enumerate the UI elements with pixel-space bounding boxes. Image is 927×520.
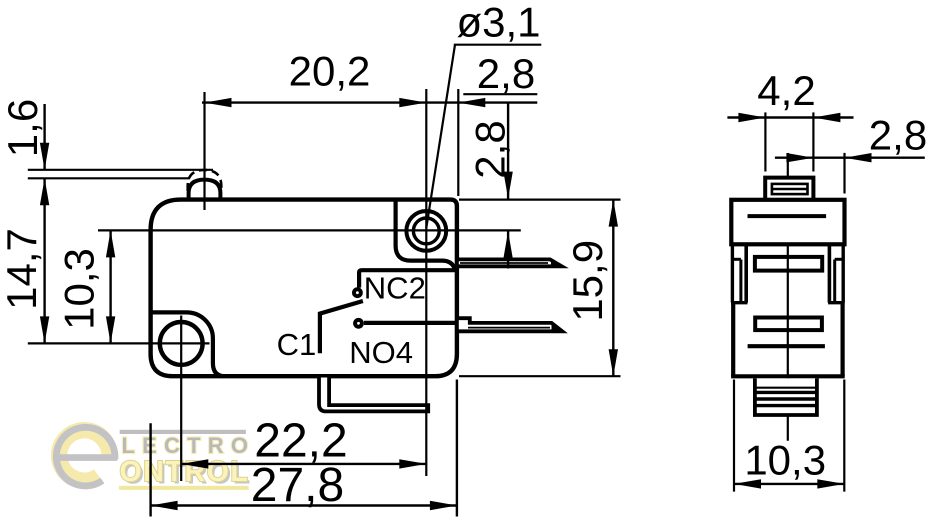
- centerline hole H2 horizontal: [98, 229, 521, 231]
- svg-text:10,3: 10,3: [744, 437, 826, 484]
- side view terminal stack lines: [755, 387, 817, 389]
- logo big e yellow ring: [59, 430, 109, 480]
- extension line plunger free top: [28, 169, 213, 171]
- common contact arm C1: [320, 301, 363, 353]
- side view waist left edge: [744, 244, 748, 302]
- underline ø3,1: [454, 44, 542, 46]
- svg-text:4,2: 4,2: [757, 67, 815, 114]
- contact NO4 dot: [353, 318, 364, 329]
- contact NC2 dot: [352, 287, 363, 298]
- side view upper housing groove: [748, 214, 827, 218]
- terminal NO blade (lower right): [457, 318, 562, 331]
- svg-text:2,8: 2,8: [477, 50, 535, 97]
- svg-text:15,9: 15,9: [564, 240, 611, 322]
- mounting hole boss top-right: [396, 200, 455, 269]
- side view slot upper: [755, 257, 822, 271]
- logo yellow bar under ONTROL: [119, 486, 249, 490]
- arrow 27,8 right: [430, 501, 457, 510]
- side view waist right edge: [828, 244, 832, 302]
- mounting hole boss bottom-left: [151, 312, 224, 376]
- contact NC2 wire: [359, 270, 457, 287]
- arrow 20,2 right: [399, 98, 426, 107]
- arrow 1,6 down: [40, 143, 49, 170]
- arrow 14,7 down: [40, 316, 49, 343]
- arrow 2,8 side right: [845, 153, 872, 162]
- centerline hole H1 vertical: [180, 316, 182, 482]
- svg-text:NO4: NO4: [349, 335, 413, 370]
- arrow 14,7 up: [40, 178, 49, 205]
- arrow 2,8 side left: [786, 153, 813, 162]
- side view clip tab right: [842, 244, 845, 302]
- side view lower housing left wall: [731, 303, 735, 377]
- svg-text:10,3: 10,3: [55, 248, 102, 330]
- arrow 10,3 up: [106, 230, 115, 257]
- svg-text:27,8: 27,8: [251, 459, 344, 512]
- extension line body right edge top: [457, 89, 459, 196]
- dimension 22,2 line: [181, 463, 426, 465]
- centerline hole H1 horizontal: [28, 342, 210, 344]
- terminal NO blade tip: [552, 322, 564, 332]
- terminal NC blade (upper right): [457, 259, 562, 266]
- plunger released position (dashed): [188, 170, 222, 191]
- side view terminal block: [755, 378, 817, 415]
- side view groove line: [748, 344, 825, 348]
- svg-text:C1: C1: [277, 327, 317, 362]
- dimension 14,7 line: [43, 178, 45, 343]
- terminal NC blade inner line: [460, 262, 548, 264]
- switch body outline (front view): [151, 200, 457, 377]
- arrow 10,3 side left: [734, 479, 761, 488]
- leader line ø3,1: [426, 45, 455, 228]
- extension line body right bottom: [456, 380, 458, 517]
- dimension 2,8 right upper line: [507, 103, 509, 200]
- extension line body left bottom: [149, 423, 151, 516]
- side view housing bottom edge: [731, 374, 845, 378]
- contact NO4 wire: [364, 321, 458, 325]
- arrow 4,2 left: [738, 113, 765, 122]
- centerline hole H2 vertical: [425, 89, 427, 476]
- mounting hole H2 inner circle: [413, 218, 439, 244]
- extension line 2,8 side: [843, 153, 845, 194]
- logo big e gray ring: [56, 427, 115, 486]
- dimension 1,6 line upper: [43, 104, 45, 170]
- side view plunger button: [765, 178, 813, 200]
- dimension 15,9 line: [612, 200, 614, 377]
- svg-text:1,6: 1,6: [0, 99, 46, 157]
- svg-text:ø3,1: ø3,1: [456, 0, 540, 46]
- arrow 2,8 top: [458, 98, 485, 107]
- logo big e crossbar: [57, 454, 118, 461]
- arrow 27,8 left: [151, 501, 178, 510]
- arrow 22,2 right: [399, 459, 426, 468]
- svg-text:2,8: 2,8: [869, 111, 927, 158]
- side view centerline: [787, 153, 789, 441]
- arrow 2,8 right up: [503, 231, 512, 258]
- side view plunger inner detail: [772, 184, 808, 194]
- svg-text:14,7: 14,7: [0, 228, 45, 310]
- arrow 22,2 left: [181, 459, 208, 468]
- arrow 10,3 side right: [817, 479, 844, 488]
- svg-text:2,8: 2,8: [467, 120, 514, 178]
- dimension 2,8 right lower line: [507, 231, 509, 268]
- dimension 2,8 side line: [775, 156, 925, 158]
- plunger button dome: [189, 180, 221, 200]
- arrow 15,9 up: [609, 200, 618, 227]
- terminal NO blade inner line: [468, 327, 550, 329]
- dimension 4,2 line: [727, 116, 853, 118]
- watermark logo: Electro Control: [56, 427, 255, 490]
- terminal NC blade tip: [551, 258, 563, 267]
- svg-text:NC2: NC2: [364, 271, 426, 306]
- arrow 20,2 left: [205, 98, 232, 107]
- dimension 10,3 line: [109, 230, 111, 343]
- extension lines 4,2: [764, 112, 766, 171]
- arrow 10,3 down: [106, 316, 115, 343]
- extension line body top right: [459, 199, 621, 201]
- mounting hole H2 outer circle: [406, 211, 446, 251]
- extension line plunger pressed top: [28, 177, 190, 179]
- lever actuator: [319, 378, 428, 412]
- side view slot lower: [755, 318, 822, 331]
- extension line body bottom right: [459, 375, 621, 377]
- underline 2,8 top: [463, 93, 537, 95]
- mounting hole H1 circle: [160, 322, 203, 365]
- dimension 20,2 / 2,8 line: [202, 101, 537, 103]
- svg-text:20,2: 20,2: [289, 48, 371, 95]
- svg-text:LECTRO: LECTRO: [122, 433, 256, 458]
- extension lines 10,3 side: [733, 380, 735, 492]
- dimension 10,3 side line: [734, 483, 844, 485]
- side view clip tab left: [731, 244, 734, 302]
- arrow 2,8 right down: [503, 172, 512, 199]
- arrow 4,2 right: [813, 113, 840, 122]
- centerline of plunger: [203, 92, 205, 210]
- logo gray bar over LECTRO: [120, 430, 246, 434]
- side view upper housing: [731, 200, 844, 245]
- dimension 27,8 line: [151, 504, 457, 506]
- side view lower housing right wall: [840, 303, 844, 377]
- arrow 15,9 down: [609, 349, 618, 376]
- svg-text:ONTROL: ONTROL: [120, 456, 250, 488]
